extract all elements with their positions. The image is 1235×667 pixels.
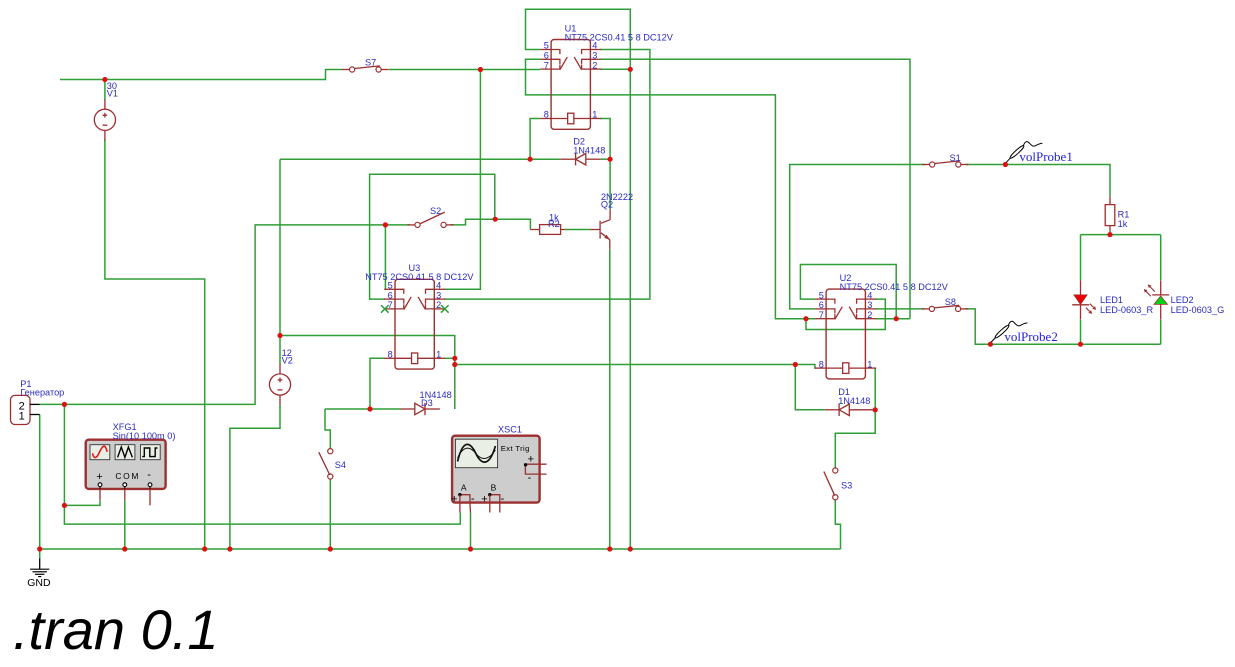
svg-text:S1: S1 [950, 153, 961, 163]
svg-text:3: 3 [867, 300, 872, 310]
svg-text:volProbe2: volProbe2 [1004, 329, 1057, 344]
svg-text:1: 1 [867, 359, 872, 369]
svg-text:5: 5 [819, 290, 824, 300]
svg-text:S4: S4 [335, 460, 346, 470]
svg-text:1: 1 [19, 410, 25, 422]
svg-text:Q2: Q2 [601, 199, 613, 209]
svg-text:R1: R1 [1118, 210, 1130, 220]
svg-text:LED-0603_R: LED-0603_R [1100, 305, 1153, 315]
svg-text:1N4148: 1N4148 [838, 396, 870, 406]
svg-text:NT75 2CS0.41 5 8 DC12V: NT75 2CS0.41 5 8 DC12V [565, 32, 674, 42]
svg-text:Генератор: Генератор [20, 388, 64, 398]
svg-text:5: 5 [544, 41, 549, 51]
svg-text:Ext Trig: Ext Trig [501, 444, 530, 453]
svg-text:3: 3 [436, 290, 441, 300]
svg-text:1: 1 [436, 350, 441, 360]
svg-text:GND: GND [27, 577, 51, 589]
svg-text:NT75 2CS0.41 5 8 DC12V: NT75 2CS0.41 5 8 DC12V [365, 272, 474, 282]
svg-text:3: 3 [592, 51, 597, 61]
svg-text:S8: S8 [945, 297, 956, 307]
svg-text:1N4148: 1N4148 [573, 146, 605, 156]
svg-text:R2: R2 [548, 219, 560, 229]
svg-text:.tran 0.1: .tran 0.1 [13, 598, 218, 661]
svg-text:B: B [491, 483, 497, 493]
svg-text:+: + [481, 494, 487, 506]
svg-text:2: 2 [592, 60, 597, 70]
svg-text:LED1: LED1 [1100, 295, 1123, 305]
svg-text:S2: S2 [430, 206, 441, 216]
svg-text:1: 1 [592, 110, 597, 120]
svg-text:+: + [96, 471, 102, 483]
svg-text:-: - [501, 493, 505, 505]
svg-text:1k: 1k [1118, 219, 1128, 229]
svg-text:Sin(10 100m 0): Sin(10 100m 0) [113, 431, 176, 441]
svg-text:6: 6 [819, 300, 824, 310]
svg-text:XSC1: XSC1 [498, 424, 522, 434]
svg-text:S7: S7 [365, 57, 376, 67]
svg-text:LED-0603_G: LED-0603_G [1171, 305, 1225, 315]
svg-text:6: 6 [388, 290, 393, 300]
svg-text:2: 2 [867, 310, 872, 320]
svg-text:2: 2 [436, 300, 441, 310]
svg-text:-: - [147, 469, 151, 481]
svg-text:LED2: LED2 [1171, 295, 1194, 305]
svg-text:8: 8 [819, 359, 824, 369]
svg-text:S3: S3 [841, 481, 852, 491]
svg-text:7: 7 [544, 60, 549, 70]
svg-text:+: + [451, 494, 457, 506]
svg-text:8: 8 [388, 350, 393, 360]
svg-text:volProbe1: volProbe1 [1019, 149, 1072, 164]
svg-text:D3: D3 [421, 398, 433, 408]
svg-text:-: - [471, 493, 475, 505]
svg-text:A: A [461, 483, 467, 493]
svg-text:V1: V1 [107, 89, 118, 99]
svg-text:V2: V2 [282, 356, 293, 366]
svg-text:8: 8 [544, 110, 549, 120]
svg-text:COM: COM [115, 471, 140, 481]
svg-text:7: 7 [819, 310, 824, 320]
svg-text:NT75 2CS0.41 5 8 DC12V: NT75 2CS0.41 5 8 DC12V [840, 282, 949, 292]
svg-text:6: 6 [544, 51, 549, 61]
